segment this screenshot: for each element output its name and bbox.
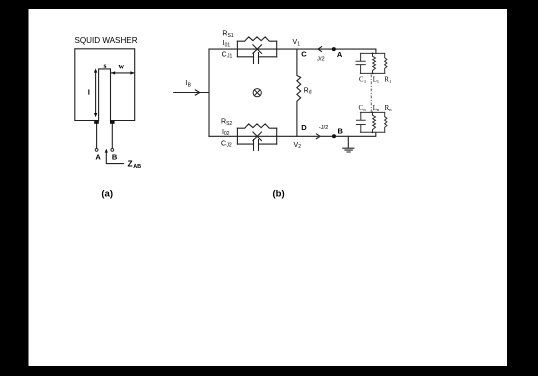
junction J1 bottom edge — [237, 56, 276, 58]
washer lead wire left — [96, 122, 98, 148]
svg-text:-J/2: -J/2 — [319, 125, 329, 131]
arrow l — [95, 72, 97, 115]
washer slit — [99, 69, 111, 121]
svg-text:B: B — [338, 126, 344, 135]
bottom wire — [209, 132, 376, 136]
IB arrowhead chevron — [195, 90, 200, 95]
svg-text:(b): (b) — [273, 188, 285, 199]
svg-text:A: A — [95, 152, 101, 161]
node B — [332, 134, 336, 138]
left rail — [208, 49, 210, 136]
capacitor CJ1 plates — [254, 53, 259, 64]
junction dot Ln bottom — [372, 131, 374, 133]
svg-text:01: 01 — [225, 43, 231, 49]
tank1 top rail — [360, 52, 384, 54]
junction dot L1 bottom — [372, 73, 374, 75]
resistor RS1 — [237, 37, 276, 41]
arrowhead l bottom — [94, 113, 97, 117]
svg-text:B: B — [112, 152, 118, 161]
capacitor C1 — [356, 53, 365, 73]
terminal A circle — [95, 149, 98, 152]
IB arrow line — [174, 92, 209, 94]
junction J1 box left — [236, 41, 238, 57]
svg-text:C: C — [221, 141, 226, 148]
svg-text:S1: S1 — [228, 33, 234, 39]
svg-text:2: 2 — [298, 144, 301, 150]
junction J2 box right — [276, 128, 278, 144]
junction J2 box left — [236, 128, 238, 144]
svg-text:SQUID WASHER: SQUID WASHER — [74, 36, 137, 45]
inductor L1 — [373, 53, 376, 73]
svg-text:C: C — [222, 52, 227, 59]
tank2 top rail — [360, 111, 384, 113]
junction dot L1 top — [372, 53, 374, 55]
arrowhead w right — [130, 71, 134, 74]
svg-text:w: w — [118, 61, 124, 70]
svg-text:J2: J2 — [226, 143, 232, 149]
arrow w — [111, 72, 134, 74]
svg-text:S2: S2 — [226, 121, 232, 127]
washer outline — [75, 49, 135, 121]
resistor Rd — [297, 49, 301, 136]
resistor R1 — [385, 53, 387, 73]
terminal B circle — [111, 149, 114, 152]
svg-text:(a): (a) — [101, 188, 113, 199]
flux symbol — [253, 89, 261, 97]
junction J1 cross — [253, 45, 262, 54]
svg-text:A: A — [337, 50, 343, 59]
arrow J/2 chevron left — [318, 47, 322, 52]
top wire — [209, 49, 376, 53]
arrowhead l top — [94, 68, 97, 72]
dash-dot link — [370, 75, 372, 112]
tank2 bottom rail — [360, 131, 384, 133]
ground — [343, 136, 354, 152]
svg-text:d: d — [309, 90, 312, 96]
resistor Rn — [385, 112, 387, 132]
resistor RS2 — [237, 124, 276, 128]
arrow -J/2 chevron right — [316, 134, 320, 139]
arrowhead Z_AB — [105, 149, 108, 153]
junction J1 box right — [276, 41, 278, 57]
svg-text:1: 1 — [297, 42, 300, 48]
svg-text:C: C — [301, 49, 307, 58]
junction dot Ln top — [372, 112, 374, 114]
svg-text:Z: Z — [128, 159, 133, 169]
Z_AB axis — [106, 151, 123, 164]
svg-text:J/2: J/2 — [317, 57, 325, 63]
inductor Ln — [373, 112, 376, 132]
svg-text:02: 02 — [224, 131, 230, 137]
svg-text:AB: AB — [133, 164, 141, 170]
arrowhead w left — [111, 71, 115, 74]
junction J2 bottom edge — [237, 143, 276, 145]
junction J2 cross — [253, 132, 262, 141]
svg-text:s: s — [103, 61, 106, 70]
svg-text:J1: J1 — [227, 54, 233, 60]
svg-text:D: D — [301, 123, 307, 132]
washer lead wire right — [111, 122, 113, 148]
capacitor Cn — [356, 112, 365, 132]
pad A — [94, 120, 99, 124]
capacitor CJ2 plates — [254, 140, 259, 151]
tank1 bottom rail — [360, 72, 384, 74]
node A — [332, 47, 336, 51]
pad B — [110, 120, 115, 124]
